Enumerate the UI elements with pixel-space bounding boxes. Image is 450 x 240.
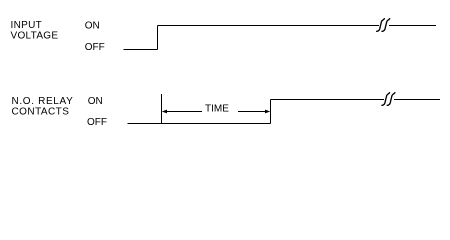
wire input ON level after break	[389, 25, 436, 27]
arrowhead right	[265, 110, 270, 114]
dimension arrow right segment	[238, 111, 265, 113]
wire input rising edge	[157, 26, 159, 50]
wire relay ON level	[271, 99, 384, 101]
svg-text:TIME: TIME	[205, 104, 229, 115]
svg-text:VOLTAGE: VOLTAGE	[11, 30, 59, 41]
svg-text:N.O. RELAY: N.O. RELAY	[12, 96, 74, 107]
svg-text:CONTACTS: CONTACTS	[12, 107, 70, 118]
reference tick at input switch time	[161, 94, 163, 124]
wire relay OFF level	[128, 123, 271, 125]
wire relay rising edge	[270, 100, 272, 124]
arrowhead left	[162, 110, 167, 114]
break symbol (input line)	[377, 19, 390, 32]
wire input ON level	[158, 25, 379, 27]
label INPUT VOLTAGE	[11, 20, 59, 41]
label N.O. RELAY CONTACTS	[12, 96, 74, 117]
wire input OFF level	[124, 49, 158, 51]
svg-text:OFF: OFF	[85, 42, 105, 53]
svg-text:INPUT: INPUT	[11, 20, 43, 31]
svg-text:ON: ON	[85, 21, 100, 32]
svg-text:OFF: OFF	[87, 117, 107, 128]
wire relay ON level after break	[394, 99, 440, 101]
break symbol (relay line)	[382, 93, 395, 106]
dimension arrow left segment	[166, 111, 202, 113]
svg-text:ON: ON	[88, 96, 103, 107]
